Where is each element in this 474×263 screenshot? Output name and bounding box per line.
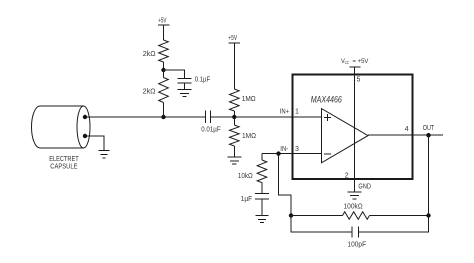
power VCC rail (op-amp pin 5) xyxy=(350,66,361,68)
svg-text:MAX4466: MAX4466 xyxy=(311,95,343,106)
wire main signal line (0.01uF cap to op-amp + input) xyxy=(211,116,322,118)
svg-text:+5V: +5V xyxy=(158,18,166,25)
power +5V rail (left divider) xyxy=(158,24,170,26)
ground (1uF) xyxy=(256,216,269,223)
capacitor 0.01uF (series, main line) xyxy=(205,111,210,124)
power +5V rail (1M divider) xyxy=(229,42,241,44)
capacitor 100pF (feedback) xyxy=(352,227,358,238)
svg-text:= +5V: = +5V xyxy=(353,58,369,65)
node OUT xyxy=(426,133,430,137)
svg-text:CC: CC xyxy=(345,60,350,66)
wire IN- node to feedback row xyxy=(279,154,292,216)
svg-text:0.01µF: 0.01µF xyxy=(201,125,221,134)
wire R4 to ground xyxy=(233,146,235,157)
wire 10k to 1uF xyxy=(261,183,263,194)
svg-text:1µF: 1µF xyxy=(241,194,253,203)
wire feedback left to 100k xyxy=(291,215,343,217)
svg-text:4: 4 xyxy=(405,126,409,133)
ground (1M divider) xyxy=(227,157,241,164)
wire 1uF to ground xyxy=(261,199,263,216)
wire +5V to R1 xyxy=(163,25,165,40)
resistor 100k (feedback) xyxy=(343,212,370,220)
wire IN+ node to R4 xyxy=(233,117,235,125)
wire R1 to node xyxy=(163,62,165,70)
wire output to feedback xyxy=(428,135,430,215)
svg-text:3: 3 xyxy=(295,146,299,153)
ground (op-amp GND pin 2) xyxy=(348,192,362,199)
node IN+ junction xyxy=(232,115,236,119)
wire R3 to IN+ node xyxy=(233,111,235,117)
capacitor 1uF xyxy=(255,194,269,200)
wire output pin 4 xyxy=(368,134,443,136)
wire main signal line (mic to 0.01uF cap) xyxy=(85,116,205,118)
wire divider midpoint to 0.1uF cap xyxy=(164,70,185,79)
wire R2 to main line xyxy=(163,103,165,118)
node divider midpoint xyxy=(161,68,165,72)
wire mic bottom terminal to ground xyxy=(85,136,104,151)
wire 0.1uF to ground xyxy=(184,83,186,90)
svg-text:2: 2 xyxy=(345,173,349,180)
node feedback left xyxy=(289,213,293,217)
op-amp plus input marker xyxy=(324,114,331,121)
node feedback right xyxy=(426,213,430,217)
resistor 1M top xyxy=(230,89,240,111)
op-amp triangle U1 xyxy=(322,109,369,163)
ground (mic) xyxy=(99,151,110,159)
wire IN- corner down to 10k xyxy=(261,154,263,160)
wire 100pF branch right xyxy=(358,216,428,233)
op-amp minus input marker xyxy=(324,153,331,155)
ground (0.1uF) xyxy=(177,90,191,97)
wire +5V to R3 xyxy=(233,43,235,89)
wire 100pF branch left xyxy=(291,216,352,233)
svg-text:2kΩ: 2kΩ xyxy=(143,49,156,58)
wire VCC pin 5 down through box to GND pin 2 xyxy=(354,67,356,192)
svg-text:GND: GND xyxy=(358,184,371,191)
svg-text:CAPSULE: CAPSULE xyxy=(50,162,77,171)
svg-text:100pF: 100pF xyxy=(348,240,367,249)
svg-text:10kΩ: 10kΩ xyxy=(238,171,253,180)
svg-text:1: 1 xyxy=(295,109,299,116)
svg-text:OUT: OUT xyxy=(423,125,435,132)
svg-text:IN+: IN+ xyxy=(280,109,289,116)
capacitor 0.1uF xyxy=(178,79,192,84)
wire IN- line (10k to op-amp - input) xyxy=(262,153,322,155)
svg-text:2kΩ: 2kΩ xyxy=(143,86,156,95)
svg-text:IN-: IN- xyxy=(280,146,289,153)
wire 100k to feedback right node xyxy=(370,215,429,217)
svg-text:1MΩ: 1MΩ xyxy=(242,131,256,140)
svg-text:+5V: +5V xyxy=(228,35,237,42)
resistor 2k top xyxy=(159,40,169,62)
resistor 10k xyxy=(257,160,267,183)
svg-text:5: 5 xyxy=(357,77,361,84)
svg-text:0.1µF: 0.1µF xyxy=(195,75,211,84)
svg-text:1MΩ: 1MΩ xyxy=(242,94,256,103)
svg-text:100kΩ: 100kΩ xyxy=(344,201,364,210)
mic terminal node bottom xyxy=(83,134,87,138)
node IN- junction xyxy=(276,151,280,155)
node junction at 2k divider / mic line xyxy=(161,115,165,119)
resistor 2k bottom xyxy=(159,78,169,103)
electret capsule MIC body xyxy=(32,106,91,148)
wire node to R2 xyxy=(163,70,165,78)
mic terminal node top xyxy=(83,115,87,119)
resistor 1M bottom xyxy=(230,125,240,146)
op-amp package box U1 xyxy=(293,75,413,180)
